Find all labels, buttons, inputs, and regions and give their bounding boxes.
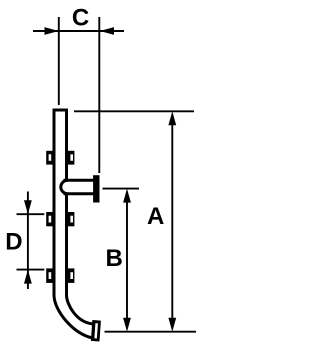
tab lower left bbox=[46, 268, 54, 283]
extension line C left (tube centerline) bbox=[58, 17, 60, 105]
arrow A bottom bbox=[168, 318, 176, 332]
tab middle right bbox=[67, 212, 75, 226]
arrow A top bbox=[168, 111, 176, 125]
tube right wall upper (down to stub) bbox=[65, 109, 68, 180]
svg-text:B: B bbox=[106, 245, 123, 272]
tube left wall + outer elbow + outlet bottom bbox=[54, 109, 93, 338]
dimension line B bbox=[126, 196, 128, 326]
arrow B top bbox=[123, 189, 131, 203]
arrow D bottom (pointing up from below) bbox=[24, 270, 32, 284]
extension line D top (middle tab) bbox=[17, 213, 45, 215]
tab upper left bbox=[46, 151, 54, 165]
svg-text:C: C bbox=[72, 4, 89, 31]
extension line top (tube top, for A) bbox=[74, 110, 194, 112]
svg-text:A: A bbox=[147, 203, 164, 230]
tab lower right bbox=[67, 268, 75, 283]
tab middle left bbox=[46, 212, 54, 226]
outlet flange (bottom, open rectangle) bbox=[91, 320, 101, 341]
arrow B bottom bbox=[123, 318, 131, 332]
tube right wall lower + inner elbow + outlet top bbox=[67, 195, 93, 324]
extension line bottom (outlet end, for A and B) bbox=[105, 331, 197, 333]
tube top cap bbox=[53, 109, 68, 112]
tab upper right bbox=[67, 151, 75, 165]
stub rounded cap bbox=[61, 180, 68, 193]
stub top line bbox=[64, 179, 94, 182]
arrow D top (pointing down from above) bbox=[24, 200, 32, 214]
stub pipe (side outlet) bbox=[61, 180, 94, 193]
arrow C left bbox=[45, 27, 59, 35]
arrow C right bbox=[100, 27, 114, 35]
stub flange (solid) bbox=[93, 175, 99, 202]
svg-text:D: D bbox=[5, 228, 22, 255]
dimension line A bbox=[171, 120, 173, 326]
dimension line C bbox=[33, 30, 124, 32]
dimension line D bbox=[27, 192, 29, 290]
extension line D bottom (lower tab) bbox=[17, 269, 45, 271]
tube body outline bbox=[53, 109, 93, 338]
stub bottom line bbox=[64, 192, 94, 195]
extension line B top (stub centerline) bbox=[103, 188, 140, 190]
extension line C right (stub flange face) bbox=[98, 17, 100, 173]
